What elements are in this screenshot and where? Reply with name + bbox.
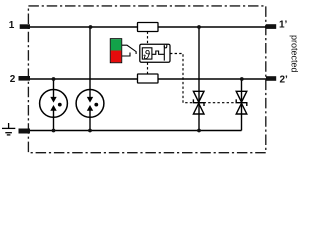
junction node ground/GDT F1 [52, 129, 56, 133]
wire ground bus [29, 130, 242, 132]
wire line 2 [29, 78, 266, 80]
junction node line2/TVS D2 [240, 77, 244, 81]
wire branch GDT F2 (line1 to ground, crossing line2) [89, 27, 91, 131]
TVS suppressor diode D2 (bidirectional) [236, 91, 247, 114]
wire branch GDT F1 (line2 to ground) [53, 79, 55, 131]
wire branch TVS D2 (line2 to ground) [241, 79, 243, 131]
terminal 1' (black pad) [266, 24, 276, 29]
terminal ground (black pad) [19, 129, 31, 134]
junction node line1/TVS D1 [197, 25, 201, 29]
mechanical link dashed: resistor R1 to thermal box [147, 32, 149, 45]
switch zigzag [152, 51, 164, 54]
svg-text:1: 1 [9, 20, 15, 31]
TVS suppressor diode D1 (bidirectional) [193, 91, 204, 114]
resistor/fuse R2 on line 2 [138, 74, 159, 83]
dash-dot enclosure border [28, 6, 265, 153]
inner thermal element [142, 48, 152, 59]
resistor/fuse R1 on line 1 [138, 23, 159, 32]
junction node line2/GDT F1 [52, 77, 56, 81]
wire line 1 [29, 26, 266, 28]
svg-text:ϑ: ϑ [143, 48, 150, 62]
terminal 1 (black pad) [20, 24, 30, 29]
mechanical link dashed: thermal box to TVS diodes [170, 54, 236, 103]
svg-text:2: 2 [10, 74, 16, 85]
svg-text:1’: 1’ [279, 20, 288, 31]
junction node ground/GDT F2 [88, 129, 92, 133]
mechanical link dashed: thermal box to resistor R2 [147, 63, 149, 75]
linkage indicator to disconnector [122, 45, 136, 56]
terminal 2' (black pad) [266, 76, 276, 81]
status indicator (green/red flag) [110, 39, 121, 63]
thermal disconnector box U1 [140, 44, 170, 62]
svg-text:2’: 2’ [280, 75, 289, 86]
svg-text:protected: protected [290, 35, 300, 73]
terminal 2 (black pad) [19, 76, 31, 81]
ground symbol [2, 123, 15, 135]
junction node line1/GDT F2 [89, 25, 93, 29]
GDT F1 (gas discharge tube, line2-ground) [40, 90, 68, 118]
junction node ground/TVS D1 [197, 129, 201, 133]
GDT F2 (gas discharge tube, line1-ground) [76, 90, 104, 118]
wire branch TVS D1 (line1 to ground) [198, 27, 200, 131]
